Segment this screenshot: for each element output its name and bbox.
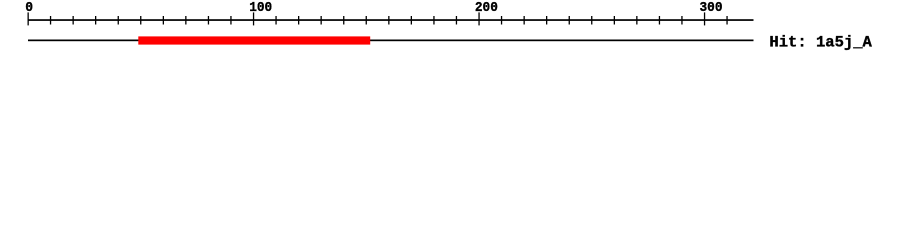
minor tick 240 — [569, 16, 570, 25]
major tick 300 — [704, 12, 705, 25]
minor tick 310 — [726, 16, 727, 25]
ruler axis line — [28, 19, 754, 21]
major tick 0 — [28, 12, 29, 25]
minor tick 290 — [681, 16, 682, 25]
minor tick 210 — [501, 16, 502, 25]
background — [0, 0, 900, 60]
minor tick 20 — [73, 16, 74, 25]
minor tick 270 — [636, 16, 637, 25]
minor tick 190 — [456, 16, 457, 25]
minor tick 180 — [433, 16, 434, 25]
minor tick 140 — [343, 16, 344, 25]
minor tick 280 — [659, 16, 660, 25]
minor tick 30 — [95, 16, 96, 25]
svg-text:100: 100 — [249, 1, 272, 16]
minor tick 150 — [366, 16, 367, 25]
minor tick 70 — [185, 16, 186, 25]
hit alignment line — [28, 40, 754, 42]
major tick 100 — [253, 12, 254, 25]
minor tick 160 — [388, 16, 389, 25]
svg-text:200: 200 — [475, 1, 498, 16]
minor tick 60 — [163, 16, 164, 25]
minor tick 10 — [50, 16, 51, 25]
minor tick 170 — [411, 16, 412, 25]
minor tick 120 — [298, 16, 299, 25]
svg-text:300: 300 — [700, 1, 723, 16]
hit match red bar — [138, 36, 370, 44]
minor tick 110 — [275, 16, 276, 25]
svg-text:0: 0 — [25, 1, 33, 16]
minor tick 50 — [140, 16, 141, 25]
minor tick 40 — [118, 16, 119, 25]
minor tick 220 — [524, 16, 525, 25]
minor tick 90 — [230, 16, 231, 25]
minor tick 130 — [321, 16, 322, 25]
svg-text:Hit: 1a5j_A: Hit: 1a5j_A — [769, 34, 872, 52]
minor tick 80 — [208, 16, 209, 25]
minor tick 230 — [546, 16, 547, 25]
major tick 200 — [478, 12, 479, 25]
minor tick 250 — [591, 16, 592, 25]
minor tick 260 — [614, 16, 615, 25]
